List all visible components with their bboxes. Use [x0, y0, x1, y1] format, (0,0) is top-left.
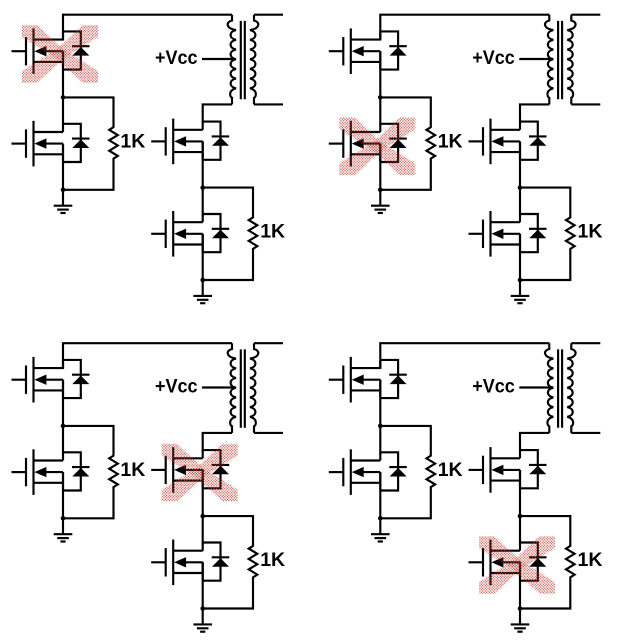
- n-channel MOSFET M44 (middle column, bottom) — crossed out: [469, 540, 547, 586]
- svg-text:1K: 1K: [120, 459, 145, 481]
- n-channel MOSFET M34 (middle column, bottom): [151, 540, 229, 586]
- wire: M4 source down to ground node: [202, 562, 204, 608]
- wire: M2 source down to ground node: [62, 472, 64, 518]
- wire: M2 source down to ground node: [379, 144, 381, 190]
- wire: node down to M4 drain: [202, 188, 204, 216]
- wire: M2 source down to ground node: [379, 472, 381, 518]
- ground (left column): [54, 518, 73, 541]
- wire: M4 source down to ground node: [519, 234, 521, 280]
- node: junction of M1 source / M2 drain / resistor: [61, 424, 66, 429]
- wire: +Vcc to transformer center tap: [202, 386, 235, 388]
- wire: secondary top lead: [571, 14, 600, 16]
- n-channel MOSFET M22 (left column, bottom) — crossed out: [329, 121, 407, 167]
- wire: M4 source down to ground node: [202, 234, 204, 280]
- resistor R11 1K (parallel with lower-left MOSFET): [63, 97, 118, 189]
- ground (middle column): [193, 609, 212, 632]
- ground (middle column): [193, 280, 212, 303]
- wire: M1 source down to node: [62, 380, 64, 426]
- node: M2 source / resistor / ground junction: [378, 188, 383, 193]
- node: junction of M1 source / M2 drain / resistor: [378, 95, 383, 100]
- wire: secondary top lead: [254, 342, 283, 344]
- svg-text:+Vcc: +Vcc: [472, 47, 515, 69]
- n-channel MOSFET M23 (middle column, top): [469, 119, 547, 165]
- node: junction of M3 source / M4 drain / resistor: [200, 514, 205, 519]
- node: M2 source / resistor / ground junction: [378, 516, 383, 521]
- n-channel MOSFET M43 (middle column, top): [469, 447, 547, 493]
- node: junction of M3 source / M4 drain / resistor: [518, 185, 523, 190]
- wire: secondary bottom lead: [571, 432, 600, 434]
- svg-text:+Vcc: +Vcc: [155, 375, 198, 397]
- wire: node down to M2 drain: [62, 97, 64, 125]
- wire: M3 source down to mid node: [202, 141, 204, 187]
- n-channel MOSFET M33 (middle column, top) — crossed out: [151, 447, 229, 493]
- wire: node down to M2 drain: [379, 426, 381, 454]
- svg-text:1K: 1K: [260, 549, 285, 571]
- wire: +Vcc to transformer center tap: [202, 58, 235, 60]
- n-channel MOSFET M12 (left column, bottom): [12, 121, 90, 167]
- n-channel MOSFET M41 (left column, top): [329, 357, 407, 403]
- wire: M1 source down to node: [62, 51, 64, 97]
- n-channel MOSFET M11 (left column, top) — crossed out: [12, 28, 90, 74]
- resistor R41 1K (parallel with lower-left MOSFET): [380, 426, 435, 518]
- wire: drain of upper-left MOSFET to transformer primary top: [63, 343, 232, 369]
- wire: drain of upper-left MOSFET to transformer primary top: [380, 15, 549, 41]
- ground (middle column): [511, 609, 530, 632]
- wire: M1 source down to node: [379, 380, 381, 426]
- node: junction of M3 source / M4 drain / resistor: [200, 185, 205, 190]
- svg-text:+Vcc: +Vcc: [155, 47, 198, 69]
- wire: M3 source down to mid node: [519, 141, 521, 187]
- svg-text:1K: 1K: [260, 221, 285, 243]
- wire: drain of upper-left MOSFET to transformer primary top: [380, 343, 549, 369]
- red X fault mark over crossed-out transistor: [154, 433, 246, 512]
- wire: M3 source down to mid node: [519, 470, 521, 516]
- n-channel MOSFET M13 (middle column, top): [151, 119, 229, 165]
- wire: secondary top lead: [254, 14, 283, 16]
- n-channel MOSFET M32 (left column, bottom): [12, 449, 90, 495]
- wire: +Vcc to transformer center tap: [519, 386, 552, 388]
- node: junction of M1 source / M2 drain / resistor: [378, 424, 383, 429]
- svg-text:1K: 1K: [578, 221, 603, 243]
- wire: M1 source down to node: [379, 51, 381, 97]
- red X fault mark over crossed-out transistor: [471, 526, 563, 605]
- n-channel MOSFET M24 (middle column, bottom): [469, 211, 547, 257]
- resistor R31 1K (parallel with lower-left MOSFET): [63, 426, 118, 518]
- wire: M4 source down to ground node: [519, 562, 521, 608]
- wire: transformer primary bottom to M3 drain: [203, 104, 232, 123]
- red X fault mark over crossed-out transistor: [331, 107, 423, 186]
- resistor R42 1K (parallel with middle-column bottom MOSFET): [520, 516, 575, 608]
- red X fault mark over crossed-out transistor: [14, 15, 106, 94]
- svg-text:1K: 1K: [120, 130, 145, 152]
- transformer T2: center-tapped primary (left) and secondary (right): [545, 15, 576, 105]
- transformer T4: center-tapped primary (left) and secondary (right): [545, 343, 576, 433]
- wire: secondary bottom lead: [254, 103, 283, 105]
- wire: +Vcc to transformer center tap: [519, 58, 552, 60]
- node: M4 source / resistor / ground junction: [200, 278, 205, 283]
- wire: node down to M4 drain: [202, 516, 204, 544]
- resistor R21 1K (parallel with lower-left MOSFET): [380, 97, 435, 189]
- n-channel MOSFET M21 (left column, top): [329, 28, 407, 74]
- wire: transformer primary bottom to M3 drain: [203, 433, 232, 452]
- n-channel MOSFET M42 (left column, bottom): [329, 449, 407, 495]
- transformer T3: center-tapped primary (left) and secondary (right): [228, 343, 259, 433]
- ground (left column): [54, 190, 73, 213]
- node: junction of M3 source / M4 drain / resistor: [518, 514, 523, 519]
- wire: M2 source down to ground node: [62, 144, 64, 190]
- resistor R22 1K (parallel with middle-column bottom MOSFET): [520, 188, 575, 280]
- wire: node down to M2 drain: [62, 426, 64, 454]
- svg-text:+Vcc: +Vcc: [472, 375, 515, 397]
- wire: transformer primary bottom to M3 drain: [520, 433, 549, 452]
- wire: transformer primary bottom to M3 drain: [520, 104, 549, 123]
- wire: node down to M2 drain: [379, 97, 381, 125]
- node: junction of M1 source / M2 drain / resistor: [61, 95, 66, 100]
- wire: secondary bottom lead: [254, 432, 283, 434]
- wire: drain of upper-left MOSFET to transformer primary top: [63, 15, 232, 41]
- ground (left column): [371, 190, 390, 213]
- resistor R12 1K (parallel with middle-column bottom MOSFET): [203, 188, 258, 280]
- svg-text:1K: 1K: [578, 549, 603, 571]
- resistor R32 1K (parallel with middle-column bottom MOSFET): [203, 516, 258, 608]
- transformer T1: center-tapped primary (left) and secondary (right): [228, 15, 259, 105]
- node: M4 source / resistor / ground junction: [518, 606, 523, 611]
- node: M4 source / resistor / ground junction: [518, 278, 523, 283]
- wire: node down to M4 drain: [519, 188, 521, 216]
- wire: node down to M4 drain: [519, 516, 521, 544]
- svg-text:1K: 1K: [438, 130, 463, 152]
- node: M2 source / resistor / ground junction: [61, 188, 66, 193]
- node: M4 source / resistor / ground junction: [200, 606, 205, 611]
- svg-text:1K: 1K: [438, 459, 463, 481]
- ground (middle column): [511, 280, 530, 303]
- node: M2 source / resistor / ground junction: [61, 516, 66, 521]
- n-channel MOSFET M31 (left column, top): [12, 357, 90, 403]
- wire: M3 source down to mid node: [202, 470, 204, 516]
- wire: secondary bottom lead: [571, 103, 600, 105]
- ground (left column): [371, 518, 390, 541]
- n-channel MOSFET M14 (middle column, bottom): [151, 211, 229, 257]
- wire: secondary top lead: [571, 342, 600, 344]
